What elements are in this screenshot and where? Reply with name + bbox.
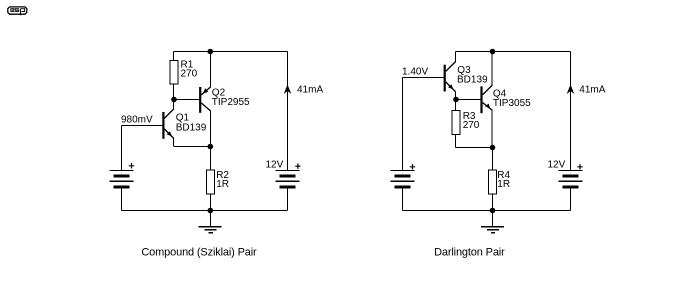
resistor R2 (207, 170, 215, 194)
battery B1 input (110, 171, 134, 187)
svg-text:Compound (Sziklai) Pair: Compound (Sziklai) Pair (141, 246, 257, 258)
battery B3 input (391, 171, 415, 187)
resistor R3 (452, 111, 460, 135)
wire bottom rail (122, 210, 288, 212)
wire input battery top lead (121, 126, 123, 171)
svg-text:BD139: BD139 (457, 74, 488, 85)
wire Q4 collector to top rail (491, 52, 493, 86)
node ground junction (490, 208, 496, 214)
wire Q2 emitter to top rail (210, 52, 212, 88)
label B1 plus (129, 163, 134, 168)
battery B2 12V (276, 171, 300, 187)
svg-text:1R: 1R (497, 179, 510, 190)
node Q4 emitter / R3 / R4 (490, 145, 496, 151)
transistor Q4 (NPN TIP3055) (480, 85, 492, 113)
wire 12V battery bottom lead (570, 188, 572, 211)
node Q2 collector / Q1 emitter / R2 (208, 144, 214, 150)
wire Q1 emitter down (173, 139, 175, 147)
wire R2 top lead (210, 147, 212, 171)
svg-text:980mV: 980mV (121, 115, 153, 126)
node Q2 emitter on top rail (208, 49, 214, 55)
node ground junction (208, 208, 214, 214)
svg-text:TIP3055: TIP3055 (493, 98, 531, 109)
wire R4 bottom lead (492, 194, 494, 211)
svg-text:41mA: 41mA (297, 84, 323, 95)
resistor R4 (489, 170, 497, 194)
svg-text:TIP2955: TIP2955 (212, 97, 250, 108)
wire 12V battery bottom lead (287, 188, 289, 211)
svg-text:12V: 12V (548, 160, 566, 171)
svg-text:12V: 12V (266, 160, 284, 171)
wire Q3 collector to top rail (455, 52, 457, 63)
svg-text:Darlington Pair: Darlington Pair (434, 246, 505, 258)
transistor Q2 (PNP TIP2955) (199, 87, 210, 113)
wire Q4 emitter down (491, 110, 493, 147)
wire R3 to Q4 emitter node (456, 147, 493, 149)
current arrow 41mA (567, 85, 575, 95)
svg-text:270: 270 (181, 69, 198, 80)
wire top rail (456, 51, 571, 53)
wire bottom rail (403, 210, 571, 212)
node Q3 emitter / R3 / Q4 base (453, 97, 459, 103)
label B3 plus (410, 164, 415, 169)
transistor Q1 (NPN BD139) (162, 109, 174, 139)
wire R1 bottom lead (173, 84, 175, 100)
wire Q3 base (403, 77, 444, 79)
transistor Q3 (NPN BD139) (444, 62, 456, 92)
svg-text:41mA: 41mA (579, 84, 605, 95)
node Q1 collector / R1 / Q2 base (171, 97, 177, 103)
svg-text:1.40V: 1.40V (402, 67, 428, 78)
wire Q1 base (122, 125, 163, 127)
label B2 plus (295, 164, 300, 169)
wire input battery bottom lead (402, 188, 404, 211)
wire R4 top lead (492, 148, 494, 171)
ground (481, 211, 504, 233)
wire Q1 emitter to node (174, 146, 211, 148)
wire R3 bottom lead (455, 135, 457, 148)
wire Q1 collector up (173, 100, 175, 110)
wire input battery top lead (402, 78, 404, 171)
wire input battery bottom lead (121, 188, 123, 211)
wire Q2 base (174, 99, 200, 101)
svg-text:BD139: BD139 (176, 122, 207, 133)
label B4 plus (577, 164, 582, 169)
wire right rail with current arrow (570, 52, 572, 171)
svg-text:1R: 1R (216, 179, 229, 190)
wire R2 bottom lead (210, 194, 212, 211)
current arrow 41mA (284, 85, 292, 95)
resistor R1 (170, 61, 178, 85)
wire R1 top lead (173, 52, 175, 61)
wire R3 top lead (455, 100, 457, 111)
wire Q2 collector down (210, 111, 212, 147)
svg-text:270: 270 (463, 120, 480, 131)
node Q4 collector on top rail (490, 49, 496, 55)
wire right rail with current arrow (287, 52, 289, 171)
battery B4 12V (559, 171, 583, 187)
ESP logo (8, 7, 27, 15)
wire Q4 base (456, 99, 480, 101)
wire top rail (174, 51, 288, 53)
ground (199, 211, 222, 233)
wire Q3 emitter down (455, 92, 457, 100)
